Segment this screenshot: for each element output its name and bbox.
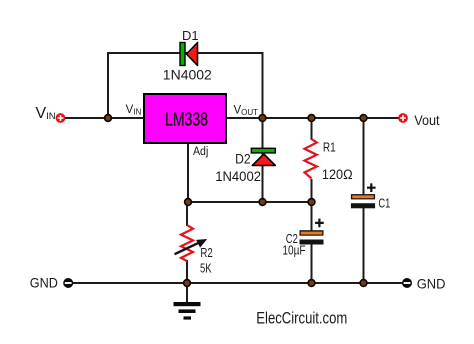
svg-text:R1: R1 — [323, 139, 336, 154]
svg-text:D1: D1 — [182, 28, 199, 43]
svg-text:1N4002: 1N4002 — [163, 66, 212, 82]
svg-text:Vout: Vout — [414, 112, 439, 128]
svg-text:GND: GND — [30, 275, 58, 291]
svg-text:Adj: Adj — [193, 146, 208, 158]
svg-text:5K: 5K — [200, 262, 212, 276]
svg-text:10µF: 10µF — [282, 243, 305, 257]
svg-text:D2: D2 — [235, 152, 251, 167]
svg-text:120Ω: 120Ω — [322, 167, 353, 182]
svg-text:R2: R2 — [200, 246, 212, 260]
svg-text:LM338: LM338 — [165, 109, 208, 130]
svg-text:ElecCircuit.com: ElecCircuit.com — [256, 308, 347, 327]
svg-text:C1: C1 — [378, 197, 390, 211]
svg-text:1N4002: 1N4002 — [215, 168, 261, 184]
svg-text:GND: GND — [417, 276, 446, 292]
